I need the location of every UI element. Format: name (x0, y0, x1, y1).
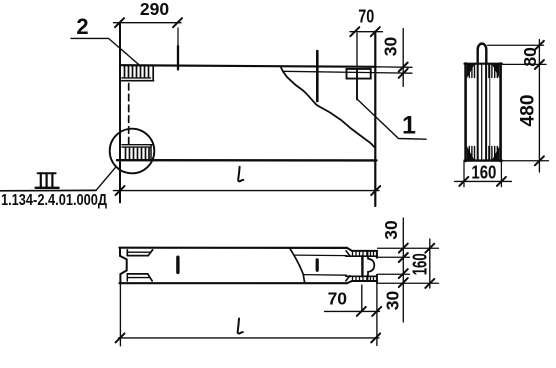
position mark 1 right (316, 260, 319, 270)
embedded plate 2 top-left hatch (125, 67, 149, 77)
end view top edge (465, 63, 502, 65)
dimension 290 tick left (115, 18, 124, 27)
dimension L plan tick left (116, 333, 125, 342)
svg-text:70: 70 (328, 289, 348, 309)
plan left strip top bottom line (127, 255, 148, 257)
lifting loop (478, 44, 487, 64)
wire plan left end profile (120, 248, 127, 284)
plan right strip top hatch (353, 251, 374, 255)
dimension chain inner line (402, 218, 404, 322)
svg-text:160: 160 (471, 162, 496, 182)
inner tick 3 (399, 269, 408, 278)
plan right strip bottom left diagonal (346, 276, 350, 281)
svg-text:1.134-2.4.01.000Д: 1.134-2.4.01.000Д (1, 192, 107, 209)
mark III stroke 3 (51, 173, 53, 187)
protruding bar (316, 51, 319, 101)
extension loop top (488, 44, 544, 46)
dimension L upper line (114, 190, 380, 192)
plan left strip bottom inner line (127, 277, 149, 279)
dimension 30 tick upper (399, 63, 408, 72)
plan extension inner top right (378, 256, 410, 258)
embedded plate 2 bottom edge (122, 80, 154, 82)
break line (281, 67, 375, 148)
svg-text:1: 1 (402, 112, 416, 140)
mark III stroke 2 (45, 173, 47, 187)
dimension 290 tick right (173, 18, 182, 27)
leader line 1 (358, 100, 427, 140)
rebar tick at 290 mark lower part (177, 46, 179, 70)
svg-text:480: 480 (518, 95, 539, 127)
plan right strip bottom top line (346, 275, 377, 277)
svg-text:30: 30 (381, 37, 401, 57)
embedded plate 2 underline (122, 77, 151, 79)
plan right strip top left diagonal (346, 251, 350, 256)
plan right edge top segment (376, 251, 378, 258)
end view vertical dim line (538, 40, 540, 173)
dimension chain outer line (429, 239, 431, 288)
end view tick loop (535, 41, 544, 50)
end view top-right wedge (492, 64, 499, 78)
end view tick top (535, 60, 544, 69)
mark III bottom bar (36, 187, 59, 189)
end view tick bottom (535, 156, 544, 165)
dimension 70 plan tick left (357, 307, 366, 316)
dimension 160 line (455, 180, 512, 182)
wire plan bottom step diagonal (347, 281, 352, 283)
symbol l upper (238, 167, 243, 182)
inner line 1 (477, 64, 479, 161)
wire top edge extension right (376, 66, 413, 69)
leader line 2 (71, 38, 139, 64)
position mark 1 left (176, 257, 179, 272)
plan left strip top diagonal (148, 250, 152, 256)
plan right edge extension down (376, 283, 378, 346)
plan right strip bottom divider (366, 276, 368, 281)
svg-text:2: 2 (76, 14, 88, 39)
svg-text:80: 80 (520, 47, 540, 67)
end view top band hatch (469, 65, 497, 78)
edge line below plate 1 (356, 79, 358, 100)
plan left strip top left edge (126, 250, 128, 256)
end view top-left wedge (467, 64, 475, 78)
dimension L plan tick right (371, 333, 380, 342)
svg-text:30: 30 (383, 291, 403, 311)
inner tick 1 (399, 244, 408, 253)
wire plan top edge (120, 247, 348, 249)
end view right edge (499, 63, 502, 161)
embedded plate III second line (122, 146, 151, 148)
inner line 4 (489, 64, 491, 161)
plan extension top edge right (378, 247, 439, 249)
end view bottom band hatch (469, 147, 497, 160)
dimension 70 tick left (350, 27, 359, 36)
wire left edge of beam (119, 24, 121, 203)
outer tick 2 (425, 279, 434, 288)
svg-text:30: 30 (381, 220, 401, 240)
dimension 70 tick right (371, 27, 380, 36)
wire right edge of beam (374, 32, 376, 206)
outer tick 1 (425, 244, 434, 253)
plan left strip bottom top line (127, 273, 147, 275)
dimension 160 tick left (459, 177, 468, 186)
inner line 2 (481, 64, 483, 161)
label underline (0, 189, 96, 191)
rebar tick at 290 mark upper part (177, 28, 179, 47)
plan inner top line (295, 254, 346, 257)
plan end notch bulge (368, 256, 374, 275)
wire top edge of beam (120, 65, 376, 67)
plan extension bottom edge right (378, 282, 439, 284)
wire plan right bottom edge (352, 280, 377, 282)
inner line 3 (485, 64, 487, 161)
symbol l lower (238, 319, 243, 334)
dimension L upper tick left (116, 186, 125, 195)
wire bottom edge of beam (117, 159, 377, 162)
dimension 290 line (114, 22, 182, 24)
mark III top bar (38, 172, 56, 174)
detail callout circle (110, 129, 155, 174)
dimension 70 plan tick right (372, 307, 381, 316)
plan inner bottom line (303, 274, 346, 277)
end view bottom edge (465, 159, 502, 161)
plan left strip bottom left edge (126, 274, 128, 281)
extension line through plate 1 upper (356, 33, 358, 67)
extension body top (503, 63, 547, 65)
plan left strip top inner line (127, 251, 150, 253)
plan right strip top divider (366, 251, 368, 256)
inner tick 2 (399, 253, 408, 262)
dimension L upper tick right (371, 186, 380, 195)
embedded plate III right edge (150, 145, 152, 160)
extension 160 left (463, 162, 465, 187)
extension 160 right (500, 162, 502, 187)
wire top chamfer line (283, 71, 412, 73)
wire plan bottom edge (120, 282, 348, 284)
end view bottom-left wedge (467, 146, 475, 160)
plan left strip bottom diagonal (148, 274, 153, 281)
dimension 70 plan line (325, 310, 380, 312)
embedded plate 1 divider (356, 69, 358, 79)
wire plan right top edge (352, 250, 377, 252)
plan left edge extension down (119, 283, 121, 346)
plan right edge bottom segment (376, 275, 378, 283)
plan right strip bottom hatch (353, 277, 374, 281)
dimension L plan line (119, 337, 380, 339)
embedded plate III bottom-left top line (122, 144, 153, 146)
dimension 30 tick lower (399, 69, 408, 78)
svg-text:290: 290 (140, 0, 169, 19)
end view left edge (464, 63, 467, 161)
dimension 160 tick right (497, 177, 506, 186)
plan extension inner bottom right (378, 273, 410, 275)
end view bottom-right wedge (492, 146, 499, 160)
wire plan top step diagonal (347, 248, 352, 251)
embedded plate 1 top-right (347, 69, 371, 79)
mark III stroke 1 (40, 173, 42, 187)
plan right strip top bottom line (346, 255, 377, 257)
extension body bottom (503, 160, 549, 162)
extension for dim 70 plan (361, 285, 363, 311)
plan stem (361, 256, 363, 276)
svg-text:160: 160 (409, 253, 431, 275)
dimension 70 top line (350, 31, 383, 33)
hidden dashed anchor line (128, 84, 130, 147)
embedded plate III hatch (126, 148, 150, 159)
svg-text:70: 70 (358, 6, 374, 26)
dimension 30 top-right line (402, 29, 404, 87)
inner tick 4 (399, 278, 408, 287)
break diagonal plan (290, 248, 305, 283)
label leader to circle (96, 167, 116, 191)
embedded plate 2 right edge (152, 67, 154, 81)
